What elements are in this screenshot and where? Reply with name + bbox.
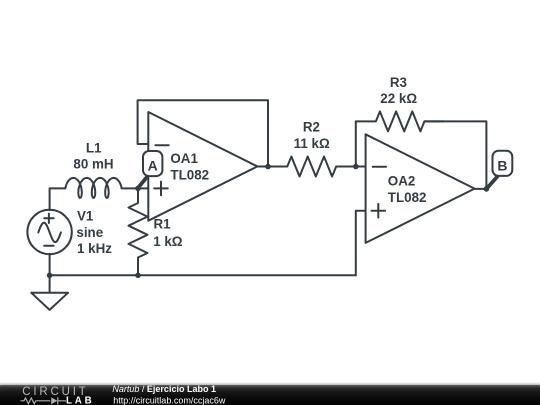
wire bottom rail xyxy=(50,274,356,276)
junction node OA1 output xyxy=(265,164,271,170)
op-amp U2 minus sign xyxy=(373,166,386,168)
svg-text:OA1: OA1 xyxy=(170,151,198,166)
flag A box xyxy=(143,151,162,176)
wire R3 to OA2 output xyxy=(424,121,486,188)
wire OA1 output xyxy=(257,166,268,168)
svg-text:TL082: TL082 xyxy=(388,190,427,205)
svg-text:A: A xyxy=(148,157,158,173)
inductor L1 xyxy=(65,178,121,198)
CircuitLab logo and captions xyxy=(0,385,540,405)
svg-text:B: B xyxy=(497,157,507,173)
flag B pin xyxy=(486,176,497,189)
voltage source V1 sine wave xyxy=(38,223,61,242)
resistor R1 xyxy=(129,188,148,275)
flag B box xyxy=(493,151,513,176)
voltage source V1 circle xyxy=(27,210,71,254)
resistor R2 xyxy=(268,157,356,177)
svg-text:11 kΩ: 11 kΩ xyxy=(294,136,330,151)
wire OA2 plus input xyxy=(356,211,366,276)
svg-text:R1: R1 xyxy=(154,217,172,232)
flag A pin xyxy=(138,177,148,189)
resistor R3 xyxy=(356,111,444,131)
wire V1 top to L1 xyxy=(50,188,66,210)
svg-text:R2: R2 xyxy=(303,120,320,135)
junction node L1/R1/flag A xyxy=(135,186,141,192)
op-amp U2 plus sign xyxy=(372,204,386,218)
svg-text:http://circuitlab.com/ccjac6w: http://circuitlab.com/ccjac6w xyxy=(113,395,226,405)
svg-text:L1: L1 xyxy=(86,140,102,155)
svg-text:22 kΩ: 22 kΩ xyxy=(380,91,417,106)
junction node OA2 output xyxy=(484,186,490,192)
op-amp U1 plus sign xyxy=(154,182,168,196)
svg-text:Nartub / Ejercicio Labo 1: Nartub / Ejercicio Labo 1 xyxy=(112,385,216,394)
svg-text:OA2: OA2 xyxy=(388,174,416,189)
svg-text:sine: sine xyxy=(76,225,103,240)
svg-text:R3: R3 xyxy=(390,75,407,90)
voltage source V1 plus sign xyxy=(44,214,53,223)
svg-text:TL082: TL082 xyxy=(170,167,209,182)
junction node R2/R3 xyxy=(353,164,359,170)
op-amp U2 triangle xyxy=(366,134,475,243)
bottom black bar xyxy=(0,385,540,405)
svg-text:80 mH: 80 mH xyxy=(73,157,113,172)
logo resistor-diode glyph xyxy=(21,397,67,404)
wire L1 to node A junction xyxy=(122,187,149,189)
svg-text:1 kHz: 1 kHz xyxy=(77,241,112,256)
svg-text:LAB: LAB xyxy=(66,395,95,405)
op-amp U1 minus sign xyxy=(155,144,168,146)
junction node R1 bottom xyxy=(135,273,141,279)
junction node ground xyxy=(47,273,53,279)
ground symbol xyxy=(31,275,68,310)
wire OA2 feedback vertical xyxy=(355,121,357,166)
wire OA2 output xyxy=(475,188,487,190)
wire OA1 feedback loop xyxy=(138,100,268,166)
svg-text:1 kΩ: 1 kΩ xyxy=(153,234,183,249)
wire R2 to OA2 minus xyxy=(356,166,366,168)
svg-text:V1: V1 xyxy=(77,209,94,224)
voltage source V1 minus sign xyxy=(44,245,53,247)
op-amp U1 triangle xyxy=(148,112,257,221)
wire V1 bottom xyxy=(49,254,51,275)
